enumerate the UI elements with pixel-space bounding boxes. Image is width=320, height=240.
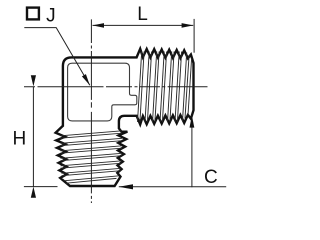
svg-text:H: H — [13, 128, 27, 149]
L left arrowhead — [92, 23, 104, 28]
inner body contour (square silhouette with step) — [68, 63, 137, 121]
H top arrowhead — [31, 75, 36, 86]
leader arrowhead — [82, 74, 90, 85]
vertical centerline — [90, 19, 92, 203]
L right extension line — [193, 19, 195, 53]
fitting body outline — [56, 49, 194, 186]
dimension C vertical line — [191, 115, 193, 187]
dimension L line — [93, 24, 194, 26]
svg-text:L: L — [137, 4, 148, 25]
dimension H line — [32, 87, 34, 187]
svg-text:J: J — [46, 5, 56, 26]
bottom port thread hatch lines — [61, 131, 123, 183]
leader line for J — [24, 28, 90, 86]
right port thread hatch lines — [138, 52, 192, 123]
square symbol of J label — [27, 8, 39, 20]
horizontal centerline — [24, 86, 208, 88]
svg-text:C: C — [204, 167, 218, 188]
L right arrowhead — [182, 23, 194, 28]
H bottom arrowhead — [31, 187, 36, 198]
C left arrowhead — [119, 184, 133, 189]
C horizontal line — [119, 186, 226, 188]
C up arrowhead — [190, 115, 195, 127]
H bottom extension line — [24, 186, 58, 188]
